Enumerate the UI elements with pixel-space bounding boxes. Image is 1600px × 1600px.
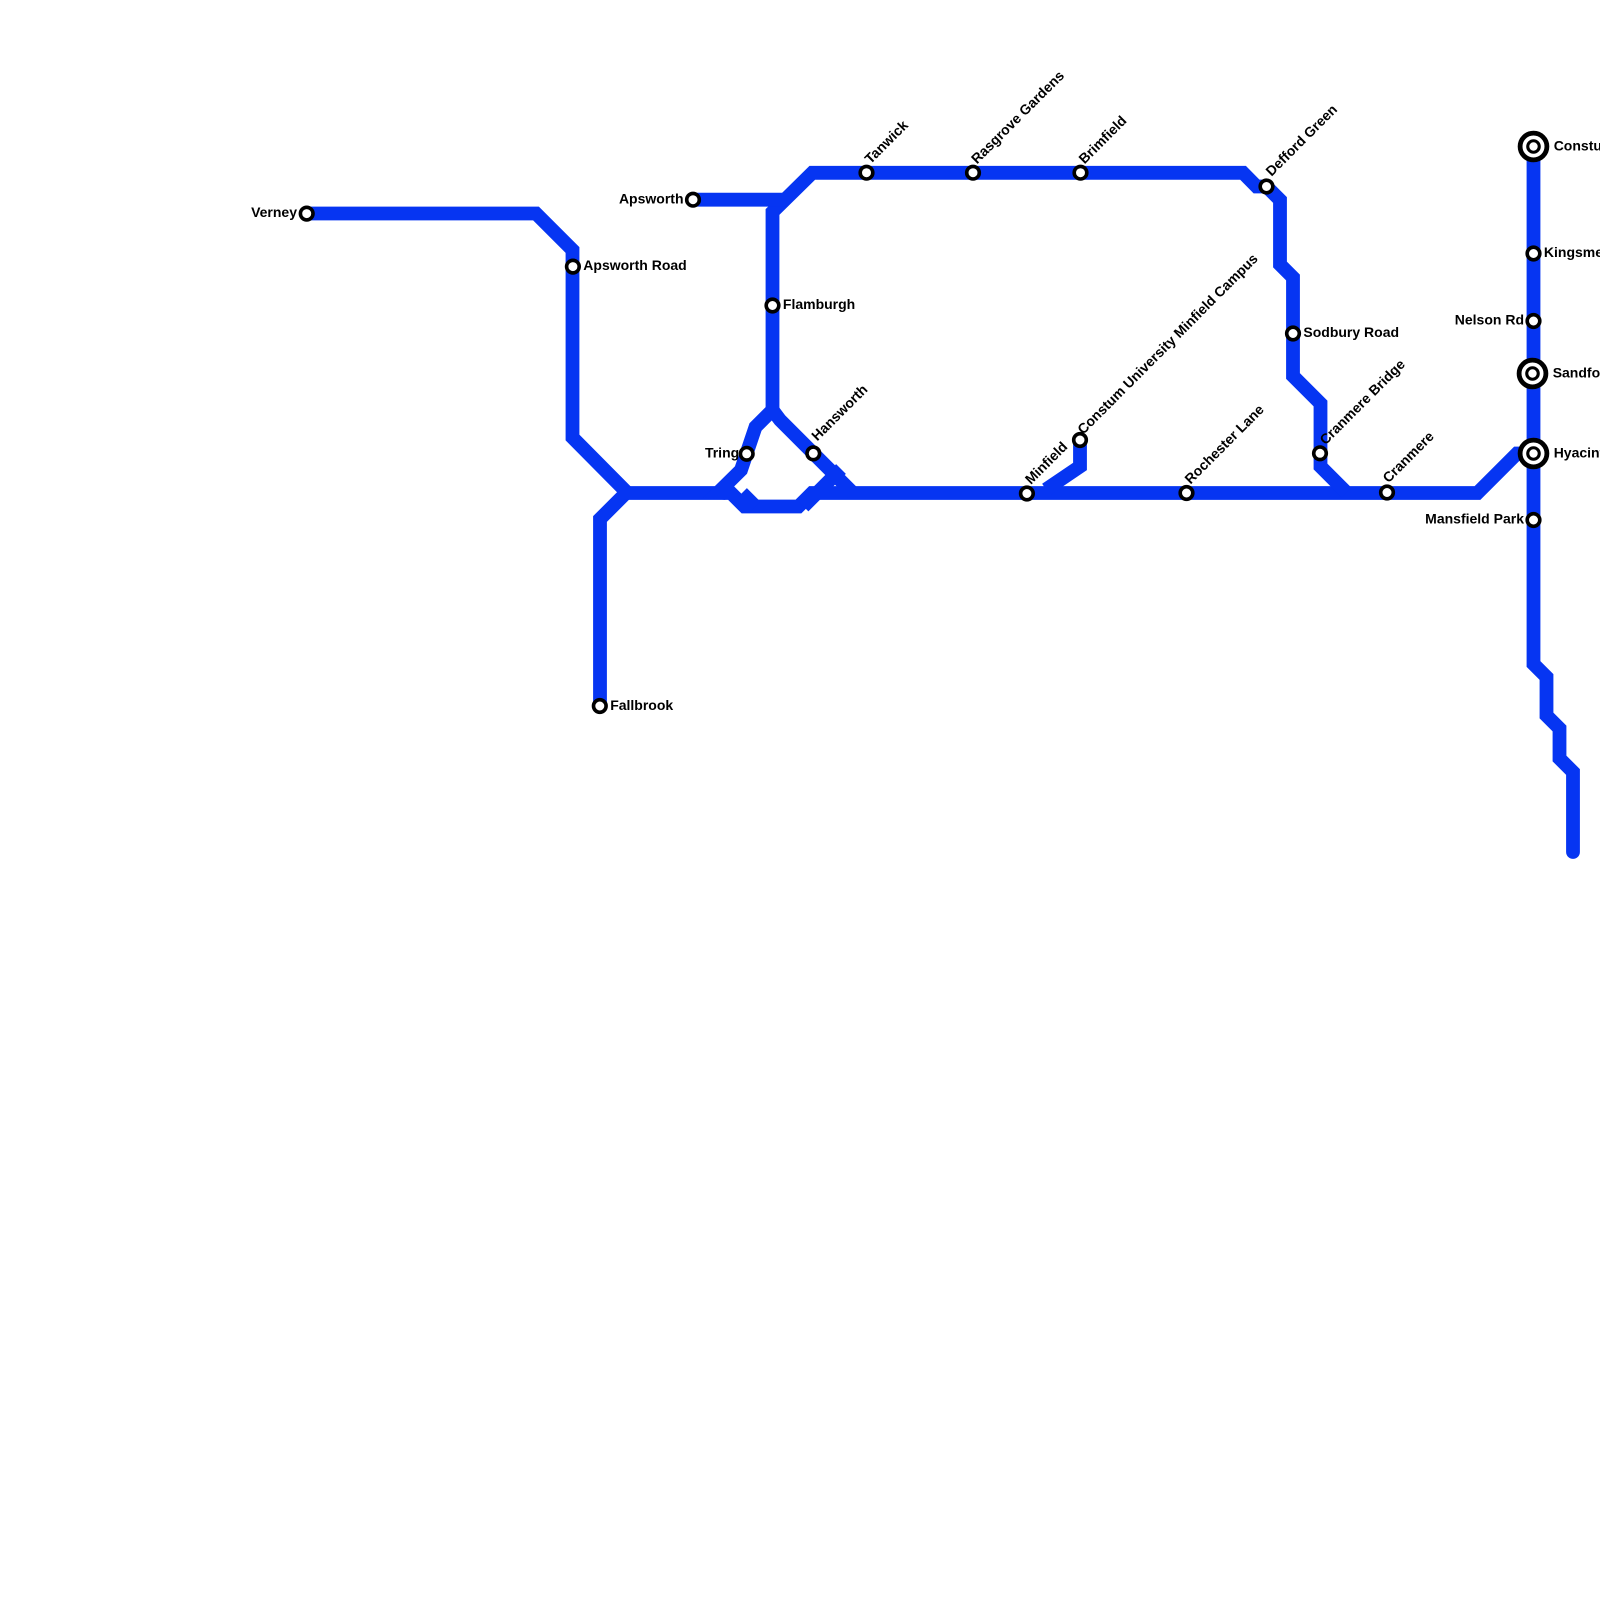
svg-text:Mansfield Park: Mansfield Park	[1425, 510, 1524, 526]
svg-text:Hyacinth: Hyacinth	[1554, 444, 1600, 460]
svg-text:Cranmere Bridge: Cranmere Bridge	[1316, 356, 1408, 448]
wire campus spur	[1046, 440, 1080, 490]
svg-text:Flamburgh: Flamburgh	[783, 296, 855, 312]
svg-text:Rasgrove Gardens: Rasgrove Gardens	[968, 67, 1067, 166]
svg-text:Constum: Constum	[1554, 138, 1600, 154]
station Sodbury Road	[1287, 327, 1300, 340]
wire Tring branch	[719, 410, 773, 493]
svg-text:Tring: Tring	[705, 444, 739, 460]
wire Hansworth branch	[773, 410, 853, 493]
wire main corridor with bypass dip	[624, 454, 1534, 507]
svg-text:Kingsmead: Kingsmead	[1544, 244, 1600, 260]
svg-text:Constum University Minfield Ca: Constum University Minfield Campus	[1074, 250, 1261, 437]
station Flamburgh	[766, 299, 779, 312]
station Defford Green	[1260, 180, 1273, 193]
svg-text:Sodbury Road: Sodbury Road	[1303, 324, 1399, 340]
wire Apsworth spur	[693, 193, 787, 207]
station Verney	[300, 207, 313, 220]
interchange Constum	[1520, 133, 1547, 160]
wire second jog down	[742, 493, 756, 507]
wire right column with zigzag	[1534, 147, 1574, 853]
svg-text:Tanwick: Tanwick	[861, 117, 911, 167]
station Apsworth	[687, 193, 700, 206]
station Mansfield Park	[1527, 514, 1540, 527]
station Brimfield	[1074, 166, 1087, 179]
station Cranmere Bridge	[1314, 447, 1327, 460]
wire Fallbrook branch	[600, 493, 626, 706]
wire second jog up to Hansworth diagonal	[804, 469, 842, 507]
station Rasgrove Gardens	[967, 166, 980, 179]
wire top loop line	[773, 173, 1347, 493]
station Minfield	[1021, 487, 1034, 500]
interchange Sandford	[1519, 360, 1546, 387]
svg-text:Hansworth: Hansworth	[808, 381, 870, 443]
svg-text:Cranmere: Cranmere	[1379, 428, 1437, 486]
svg-text:Sandford: Sandford	[1553, 364, 1600, 380]
svg-text:Verney: Verney	[251, 204, 297, 220]
svg-text:Fallbrook: Fallbrook	[610, 697, 673, 713]
svg-text:Nelson Rd: Nelson Rd	[1455, 312, 1524, 328]
station Hansworth	[807, 447, 820, 460]
station Fallbrook	[594, 700, 607, 713]
station Constum University Minfield Campus	[1074, 434, 1087, 447]
station Nelson Rd	[1527, 315, 1540, 328]
interchange Hyacinth	[1520, 440, 1547, 467]
station Kingsmead	[1527, 247, 1540, 260]
station Cranmere	[1381, 486, 1394, 499]
station Apsworth Road	[567, 260, 580, 273]
station Tring	[740, 448, 753, 461]
svg-text:Apsworth Road: Apsworth Road	[583, 257, 686, 273]
wire Verney line to main junction	[306, 214, 626, 492]
svg-text:Defford Green: Defford Green	[1262, 101, 1340, 179]
svg-text:Rochester Lane: Rochester Lane	[1181, 401, 1267, 487]
station Rochester Lane	[1180, 487, 1193, 500]
svg-text:Apsworth: Apsworth	[619, 191, 684, 207]
svg-text:Brimfield: Brimfield	[1075, 112, 1129, 166]
station Tanwick	[860, 166, 873, 179]
